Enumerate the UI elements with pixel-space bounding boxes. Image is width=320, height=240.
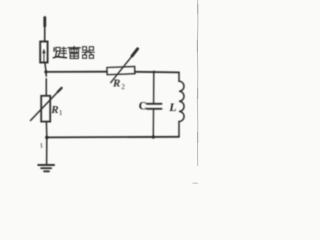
paper background [0,0,207,220]
wire: coil bottom to bottom wire [178,122,180,137]
node D (capacitor to bottom wire) [152,135,155,138]
arrester (避雷器) body [40,42,47,63]
label C [139,101,147,113]
svg-text:2: 2 [121,82,125,91]
wire: capacitor branch lower [152,110,154,137]
label R2 [112,78,125,91]
wire: right vertical upper (to coil) [178,72,180,81]
label 避雷器 (hand-drawn glyphs) [53,46,94,58]
node B (junction dot, bottom left) [45,136,49,140]
R1 diagonal stroke [31,88,62,120]
ground [38,165,54,171]
svg-text:L: L [168,100,176,114]
wire: R2 to top-right corner [135,71,179,74]
label L [168,100,176,114]
wire: arrester bottom to node A [45,63,46,71]
char 避 [53,47,66,58]
page-edge shadow line (right) [196,0,199,166]
small smudge right lower [193,183,199,184]
label R1 [50,104,63,117]
inductor L coil [179,81,184,121]
stray scan tick left of ground wire [40,144,42,148]
node A (junction dot) [44,70,47,73]
wire: top feed into arrester [44,18,46,42]
wire: R1 bottom to node B [45,122,47,137]
wire: node A down to R1 [45,73,47,77]
char 器 [82,47,94,59]
svg-text:C: C [139,101,147,113]
capacitor C plates [147,103,162,105]
wire: node A to R2 (top horizontal left) [46,71,107,73]
wire: node B down to ground [46,137,48,163]
svg-text:R: R [112,78,120,90]
node C (capacitor tap on top wire) [153,71,156,74]
char 雷 [68,46,80,58]
resistor R2 body (tilted) [107,67,135,75]
wire: capacitor branch upper [153,72,155,103]
arrester internal arrow [43,52,45,62]
R2 adjustment arrow [111,55,133,83]
svg-text:R: R [50,104,58,116]
svg-text:1: 1 [59,108,63,117]
varistor R1 body [41,96,50,122]
wire: bottom horizontal [47,136,179,139]
